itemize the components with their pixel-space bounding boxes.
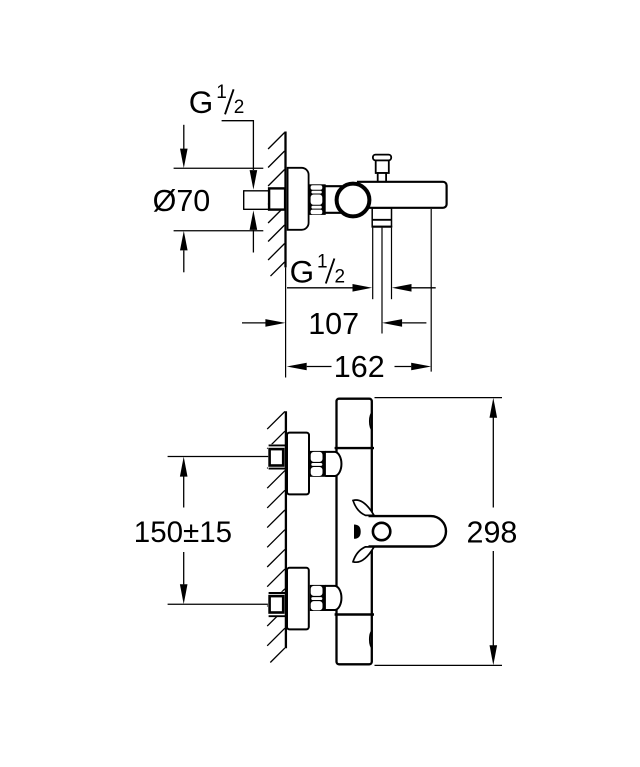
lower hex nut (bottom view) bbox=[310, 585, 326, 611]
svg-text:150±15: 150±15 bbox=[134, 516, 232, 549]
svg-text:162: 162 bbox=[334, 350, 385, 384]
lower side screw (half ellipse) bbox=[370, 631, 373, 648]
diverter knob stem bbox=[378, 173, 386, 183]
valve neck (top view) bbox=[325, 186, 342, 213]
label G 1/2 (top) bbox=[189, 82, 245, 120]
lower wall union nut (bottom view) bbox=[268, 592, 286, 617]
wall extension line down to 107/162 dims bbox=[285, 267, 287, 377]
body division lines bbox=[335, 447, 374, 449]
svg-text:G: G bbox=[290, 253, 315, 289]
black detent mark on body bbox=[354, 525, 361, 539]
svg-text:2: 2 bbox=[335, 266, 346, 287]
thermostat valve circle (top view) bbox=[337, 184, 370, 217]
outlet extension lines bbox=[373, 228, 392, 334]
hex connection nut (top view) bbox=[310, 184, 326, 215]
lower handle wing bbox=[353, 547, 374, 562]
lower escutcheon (bottom view) bbox=[287, 568, 309, 630]
svg-text:1: 1 bbox=[317, 251, 328, 272]
wall hatching (top view) bbox=[268, 133, 285, 277]
arrow down to nipple top bbox=[250, 170, 258, 190]
162 extension line from spout end bbox=[430, 209, 432, 372]
spout outlet circle (front view) bbox=[373, 523, 390, 540]
upper hex nut (bottom view) bbox=[310, 451, 326, 477]
leader line from G1/2 label bbox=[222, 121, 254, 170]
Ø70 dimension bbox=[153, 125, 264, 272]
upper wall union nut (bottom view) bbox=[268, 444, 286, 469]
diverter knob body bbox=[376, 160, 389, 173]
label G 1/2 (second) bbox=[290, 251, 345, 289]
G1/2 wall nipple (top view) bbox=[269, 188, 285, 209]
supply pipe stub (top view) bbox=[244, 190, 269, 210]
upper side screw (half ellipse) bbox=[370, 413, 373, 430]
bath spout pill (front view) bbox=[366, 516, 446, 546]
mixer body column (bottom view) bbox=[337, 399, 372, 665]
wall hatching (bottom view) bbox=[267, 412, 285, 663]
svg-text:1: 1 bbox=[216, 82, 227, 103]
wall face line (top view) bbox=[284, 132, 286, 268]
shower outlet fitting (top view) bbox=[372, 208, 393, 227]
svg-text:298: 298 bbox=[467, 516, 518, 550]
spout body (top view) bbox=[358, 182, 447, 208]
svg-text:2: 2 bbox=[234, 97, 245, 118]
lower ball joint dome bbox=[325, 586, 341, 610]
107 dimension bbox=[242, 307, 426, 341]
upper ball joint dome bbox=[325, 452, 341, 476]
150±15 dimension bbox=[134, 457, 268, 605]
upper handle wing bbox=[353, 500, 374, 515]
svg-text:G: G bbox=[189, 84, 214, 120]
wall face line (bottom view) bbox=[285, 411, 287, 648]
upper escutcheon (bottom view) bbox=[287, 433, 309, 495]
arrow up to nipple bottom bbox=[250, 210, 258, 230]
svg-text:107: 107 bbox=[308, 307, 359, 341]
escutcheon flange (top view) bbox=[288, 168, 309, 230]
162 dimension bbox=[287, 350, 432, 384]
298 dimension bbox=[375, 398, 518, 666]
svg-text:Ø70: Ø70 bbox=[153, 184, 211, 218]
G1/2 outlet dimension line bbox=[287, 284, 436, 292]
diverter knob cap bbox=[373, 155, 391, 161]
